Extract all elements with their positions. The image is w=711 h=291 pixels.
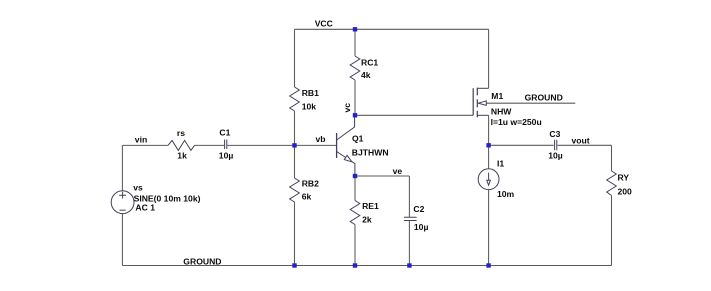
svg-text:RE1: RE1 [362, 201, 379, 211]
node junction ve [353, 174, 357, 178]
svg-text:vs: vs [133, 183, 143, 193]
svg-text:rs: rs [177, 128, 185, 138]
svg-text:1k: 1k [177, 151, 187, 161]
node junction ground RB2 [292, 263, 296, 267]
node junction ground RE1 [353, 263, 357, 267]
svg-text:10k: 10k [302, 101, 317, 111]
wire GROUND net at M1 bulk [485, 102, 575, 104]
wire RY bottom lead [611, 196, 613, 266]
svg-text:ve: ve [393, 166, 403, 176]
svg-text:l=1u w=250u: l=1u w=250u [491, 117, 542, 127]
svg-text:2k: 2k [362, 215, 372, 225]
svg-text:RB2: RB2 [302, 178, 319, 188]
voltage source vs [111, 191, 134, 214]
wire RB2 top lead [294, 145, 296, 178]
svg-text:C2: C2 [413, 204, 424, 214]
wire RB2 bottom lead [294, 202, 296, 266]
svg-text:GROUND: GROUND [525, 92, 563, 102]
wire M1 source down to vout node [488, 115, 490, 145]
node junction VCC/RC1 [353, 27, 357, 31]
transistor M1 [473, 88, 488, 118]
svg-text:vin: vin [135, 134, 147, 144]
svg-text:4k: 4k [361, 70, 371, 80]
wire ve row [355, 175, 409, 177]
svg-text:vb: vb [316, 134, 326, 144]
svg-text:GROUND: GROUND [183, 256, 221, 266]
svg-text:10µ: 10µ [548, 151, 563, 161]
svg-text:200: 200 [618, 187, 633, 197]
svg-text:10µ: 10µ [219, 150, 234, 160]
wire vout row right [558, 144, 612, 146]
svg-text:C3: C3 [549, 129, 560, 139]
capacitor C3 [555, 140, 557, 151]
node junction ground C2 [407, 263, 411, 267]
wire RE1 bottom lead [354, 225, 356, 266]
wire RC1 top lead [354, 29, 356, 56]
node junction vout [486, 143, 490, 147]
svg-text:AC 1: AC 1 [135, 202, 155, 212]
wire left rail lower [121, 214, 123, 266]
resistor RB1 [290, 87, 300, 111]
wire I1 bottom lead [488, 190, 490, 266]
resistor RB2 [290, 178, 300, 202]
wire vout row left [489, 144, 554, 146]
wire rs to C1 [195, 144, 225, 146]
wire M1 drain to VCC [488, 29, 490, 88]
wire RE1 top lead [354, 176, 356, 201]
svg-text:RC1: RC1 [361, 58, 378, 68]
wire ground rail [122, 265, 611, 267]
svg-text:RY: RY [618, 173, 630, 183]
resistor RE1 [350, 201, 360, 225]
node junction vc [353, 113, 357, 117]
node junction vb [292, 143, 296, 147]
wire I1 top lead [488, 145, 490, 169]
svg-text:6k: 6k [302, 192, 312, 202]
svg-text:Q1: Q1 [352, 134, 364, 144]
wire RB1 bottom lead [294, 111, 296, 145]
wire vin row left [122, 144, 168, 146]
resistor RY [607, 171, 617, 196]
node junction ground I1 [486, 263, 490, 267]
wire VCC rail [295, 28, 489, 30]
wire RC1 bottom lead to vc [354, 80, 356, 115]
svg-text:C1: C1 [219, 127, 230, 137]
wire RY top lead [611, 145, 613, 171]
svg-text:I1: I1 [497, 159, 504, 169]
resistor RC1 [350, 56, 360, 80]
wire vc to M1 gate [355, 114, 473, 116]
resistor rs [168, 140, 195, 150]
wire C1 to Q1 base [227, 144, 336, 146]
svg-text:10m: 10m [497, 189, 515, 199]
capacitor C1 [225, 140, 227, 150]
svg-text:vout: vout [572, 136, 590, 146]
svg-text:10µ: 10µ [414, 222, 429, 232]
transistor Q1 [337, 115, 355, 176]
capacitor C2 [404, 217, 417, 220]
svg-text:BJTHWN: BJTHWN [352, 147, 389, 157]
wire C2 top lead [408, 176, 410, 217]
svg-text:RB1: RB1 [302, 88, 319, 98]
wire C2 bottom lead [408, 221, 410, 266]
svg-text:VCC: VCC [315, 19, 333, 29]
wire left rail upper [121, 145, 123, 190]
svg-text:NHW: NHW [491, 107, 512, 117]
wire RB1 top lead [294, 29, 296, 87]
svg-text:M1: M1 [491, 91, 503, 101]
svg-text:vc: vc [342, 103, 352, 113]
current source I1 [478, 169, 499, 190]
